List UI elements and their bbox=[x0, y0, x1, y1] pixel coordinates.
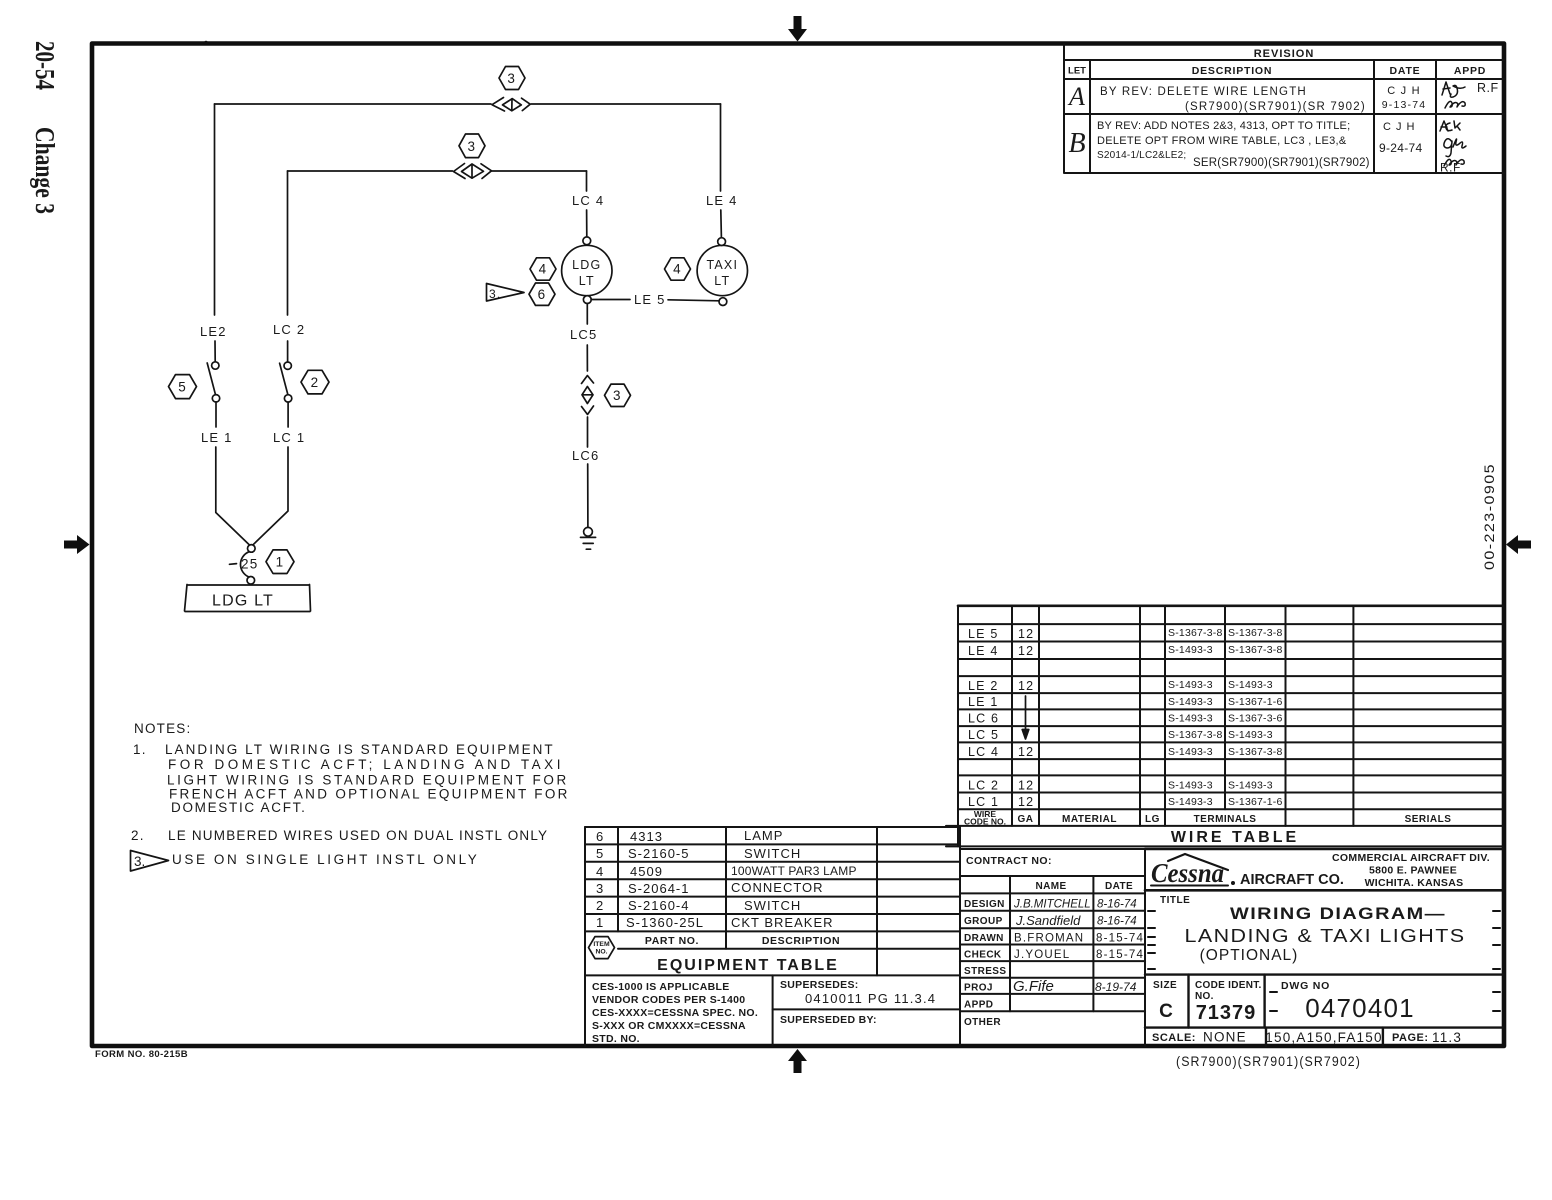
svg-text:DWG NO: DWG NO bbox=[1281, 980, 1330, 992]
svg-text:S-1493-3: S-1493-3 bbox=[1228, 679, 1273, 691]
svg-text:VENDOR CODES PER S-1400: VENDOR CODES PER S-1400 bbox=[592, 994, 745, 1006]
svg-text:1: 1 bbox=[596, 915, 604, 930]
svg-text:SUPERSEDES:: SUPERSEDES: bbox=[780, 979, 859, 991]
svg-text:9-24-74: 9-24-74 bbox=[1379, 141, 1422, 155]
wire LC4 vertical x=586.5 bbox=[586, 171, 588, 237]
svg-text:Cessna: Cessna bbox=[1151, 858, 1224, 888]
lamp LDG LT (item 4, 100 watt PAR3 lamp) bbox=[562, 237, 612, 304]
svg-text:00-223-0905: 00-223-0905 bbox=[1482, 463, 1497, 570]
svg-text:R.F: R.F bbox=[1477, 81, 1499, 95]
svg-text:S-2064-1: S-2064-1 bbox=[628, 881, 689, 896]
node LDG LT bus bar box bbox=[185, 585, 311, 612]
hexagon callout 4 (left of LDG LT) bbox=[530, 258, 556, 280]
svg-text:5: 5 bbox=[596, 846, 604, 861]
svg-text:S-1493-3: S-1493-3 bbox=[1168, 713, 1213, 725]
svg-text:LAMP: LAMP bbox=[744, 828, 783, 843]
svg-text:71379: 71379 bbox=[1196, 1002, 1257, 1024]
svg-text:LC5: LC5 bbox=[570, 327, 597, 342]
circuit breaker item1 25A (S-1360-25L) bbox=[230, 545, 256, 584]
lamp TAXI LT (item 4, 100 watt PAR3 lamp) bbox=[697, 238, 747, 306]
svg-text:1.: 1. bbox=[133, 742, 147, 757]
svg-text:OTHER: OTHER bbox=[964, 1017, 1001, 1028]
svg-text:SWITCH: SWITCH bbox=[744, 898, 801, 913]
svg-text:100WATT PAR3 LAMP: 100WATT PAR3 LAMP bbox=[731, 864, 857, 878]
svg-text:1: 1 bbox=[276, 555, 285, 570]
svg-text:LC 6: LC 6 bbox=[968, 712, 999, 726]
equipment table item rows bbox=[596, 828, 857, 930]
hexagon callout 3 (vertical connector) bbox=[605, 384, 631, 406]
svg-text:C: C bbox=[1159, 1001, 1173, 1022]
svg-text:S-XXX OR CMXXXX=CESSNA: S-XXX OR CMXXXX=CESSNA bbox=[592, 1020, 746, 1032]
svg-text:SCALE:: SCALE: bbox=[1152, 1032, 1196, 1044]
svg-text:CODE IDENT.: CODE IDENT. bbox=[1195, 980, 1262, 991]
svg-text:LE NUMBERED WIRES USED ON: LE NUMBERED WIRES USED ON DUAL INSTL ONL… bbox=[168, 828, 548, 843]
svg-text:S-1367-3-8: S-1367-3-8 bbox=[1168, 627, 1223, 639]
svg-text:S-2160-5: S-2160-5 bbox=[628, 846, 689, 861]
svg-text:3: 3 bbox=[507, 71, 516, 86]
svg-text:TAXI: TAXI bbox=[706, 258, 738, 272]
svg-text:J.Sandfield: J.Sandfield bbox=[1015, 913, 1081, 928]
svg-text:LANDING LT WIRING IS STAND: LANDING LT WIRING IS STANDARD EQUIPMENT bbox=[165, 742, 555, 757]
svg-text:LC 1: LC 1 bbox=[968, 795, 999, 809]
svg-text:S-1367-1-6: S-1367-1-6 bbox=[1228, 796, 1283, 808]
svg-text:LDG LT: LDG LT bbox=[212, 593, 274, 610]
svg-text:PROJ: PROJ bbox=[964, 983, 993, 994]
svg-text:CONTRACT NO:: CONTRACT NO: bbox=[966, 855, 1052, 867]
svg-text:25: 25 bbox=[241, 557, 258, 572]
registration arrow right (pointing left) bbox=[1506, 535, 1531, 554]
svg-text:4: 4 bbox=[596, 864, 604, 879]
svg-text:SIZE: SIZE bbox=[1153, 980, 1177, 991]
svg-text:LIGHT WIRING IS STANDARD E: LIGHT WIRING IS STANDARD EQUIPMENT FOR bbox=[167, 773, 569, 788]
svg-text:8-19-74: 8-19-74 bbox=[1095, 980, 1137, 994]
svg-text:6: 6 bbox=[538, 287, 547, 302]
svg-text:S-1493-3: S-1493-3 bbox=[1168, 679, 1213, 691]
svg-text:CODE NO.: CODE NO. bbox=[964, 817, 1006, 827]
svg-text:WIRE TABLE: WIRE TABLE bbox=[1171, 829, 1299, 846]
wire LC2 vertical x=287.5 bbox=[287, 171, 289, 362]
vendor codes box bbox=[585, 975, 960, 1046]
svg-text:3.: 3. bbox=[489, 287, 501, 301]
size / code ident / dwg no row bbox=[1145, 975, 1503, 1028]
connector item3 on LE wire (quick disconnect) bbox=[492, 98, 530, 112]
svg-text:S-1493-3: S-1493-3 bbox=[1168, 644, 1213, 656]
svg-text:NAME: NAME bbox=[1035, 881, 1066, 892]
wire table entries bbox=[968, 627, 1034, 809]
svg-text:12: 12 bbox=[1018, 627, 1034, 641]
svg-text:GROUP: GROUP bbox=[964, 916, 1003, 927]
svg-text:S-1360-25L: S-1360-25L bbox=[626, 915, 704, 930]
registration arrow top (pointing down) bbox=[788, 16, 807, 42]
svg-text:NOTES:: NOTES: bbox=[134, 721, 191, 736]
svg-text:NO.: NO. bbox=[1195, 991, 1214, 1002]
svg-text:CHECK: CHECK bbox=[964, 950, 1002, 961]
svg-text:LE 5: LE 5 bbox=[634, 292, 666, 307]
svg-text:Change 3: Change 3 bbox=[30, 127, 60, 214]
svg-text:12: 12 bbox=[1018, 679, 1034, 693]
svg-text:LE 2: LE 2 bbox=[968, 679, 999, 693]
svg-text:REVISION: REVISION bbox=[1254, 48, 1315, 60]
svg-text:5800 E. PAWNEE: 5800 E. PAWNEE bbox=[1369, 865, 1457, 877]
svg-text:(SR7900)(SR7901)(SR 7902): (SR7900)(SR7901)(SR 7902) bbox=[1185, 101, 1366, 113]
wire LC3/LC2 second horizontal run y=171 bbox=[288, 170, 587, 172]
svg-text:LG: LG bbox=[1145, 814, 1160, 825]
svg-text:LE2: LE2 bbox=[200, 324, 227, 339]
svg-text:APPD: APPD bbox=[1454, 65, 1486, 77]
svg-text:3: 3 bbox=[467, 139, 476, 154]
scale row bbox=[1266, 1028, 1383, 1046]
wire table grid bbox=[946, 606, 1503, 847]
svg-text:BY REV: ADD NOTES 2&3, 4313, O: BY REV: ADD NOTES 2&3, 4313, OPT TO TITL… bbox=[1097, 120, 1350, 132]
approvals entries bbox=[1013, 899, 1137, 929]
wire table column headers bbox=[964, 809, 1006, 827]
svg-text:2: 2 bbox=[596, 898, 604, 913]
connector item3 on LC wire (quick disconnect) bbox=[454, 164, 492, 179]
svg-text:12: 12 bbox=[1018, 644, 1034, 658]
svg-text:STRESS: STRESS bbox=[964, 966, 1006, 977]
svg-text:S-1493-3: S-1493-3 bbox=[1228, 780, 1273, 792]
note 3 flag triangle pointing to hexagon 6 bbox=[487, 284, 525, 302]
revision table bbox=[1064, 44, 1504, 173]
drawing sheet outer border frame bbox=[92, 44, 1504, 1047]
svg-text:9-13-74: 9-13-74 bbox=[1382, 99, 1427, 111]
svg-text:USE ON SINGLE LIGHT INSTL: USE ON SINGLE LIGHT INSTL ONLY bbox=[172, 852, 479, 867]
wire LE4 vertical x=720.5 bbox=[720, 104, 723, 238]
svg-text:B.FROMAN: B.FROMAN bbox=[1014, 933, 1084, 945]
svg-text:NO.: NO. bbox=[595, 949, 607, 956]
svg-text:0470401: 0470401 bbox=[1305, 993, 1415, 1023]
svg-text:LE 4: LE 4 bbox=[706, 193, 738, 208]
svg-text:EQUIPMENT TABLE: EQUIPMENT TABLE bbox=[657, 957, 839, 974]
svg-text:C J H: C J H bbox=[1387, 85, 1421, 97]
wire LC5 vertical below LDG LT bbox=[586, 304, 588, 372]
switch item2 (LC circuit, S-2160-4) bbox=[280, 362, 292, 402]
svg-text:CKT BREAKER: CKT BREAKER bbox=[731, 915, 834, 930]
svg-text:8-15-74: 8-15-74 bbox=[1096, 933, 1144, 945]
svg-text:3: 3 bbox=[613, 388, 622, 403]
svg-text:S-1493-3: S-1493-3 bbox=[1168, 746, 1213, 758]
svg-text:S-1367-3-8: S-1367-3-8 bbox=[1228, 644, 1283, 656]
svg-text:APPD: APPD bbox=[964, 1000, 993, 1011]
svg-text:2.: 2. bbox=[131, 828, 145, 843]
svg-text:DRAWN: DRAWN bbox=[964, 933, 1004, 944]
svg-text:S-1367-1-6: S-1367-1-6 bbox=[1228, 696, 1283, 708]
svg-text:SER(SR7900)(SR7901)(SR7902): SER(SR7900)(SR7901)(SR7902) bbox=[1193, 157, 1370, 169]
hexagon callout 5 bbox=[169, 375, 197, 399]
notes text block bbox=[131, 721, 570, 867]
svg-text:DELETE OPT FROM WIRE TABLE,: DELETE OPT FROM WIRE TABLE, LC3 , LE3,& bbox=[1097, 135, 1347, 147]
svg-text:S-1493-3: S-1493-3 bbox=[1228, 729, 1273, 741]
hexagon callout 3 (second connector) bbox=[459, 134, 485, 158]
svg-text:LE 4: LE 4 bbox=[968, 644, 999, 658]
svg-text:R.F: R.F bbox=[1440, 161, 1461, 175]
svg-text:2: 2 bbox=[311, 375, 320, 390]
svg-text:J.YOUEL: J.YOUEL bbox=[1014, 949, 1070, 961]
svg-text:DESIGN: DESIGN bbox=[964, 899, 1005, 910]
wire LE5 horizontal y=299.5 bbox=[591, 300, 719, 301]
hexagon callout 3 (top connector) bbox=[499, 67, 525, 90]
svg-text:12: 12 bbox=[1018, 795, 1034, 809]
title block: contract and approvals table bbox=[960, 849, 1145, 1046]
svg-text:6: 6 bbox=[596, 829, 604, 844]
svg-text:TERMINALS: TERMINALS bbox=[1194, 814, 1257, 825]
appd B signature scribble bbox=[1440, 121, 1466, 166]
svg-text:C J H: C J H bbox=[1383, 121, 1416, 133]
wire LC1 vertical bbox=[253, 402, 288, 545]
hexagon callout 6 (left of LDG LT) bbox=[529, 283, 555, 305]
svg-text:LE 1: LE 1 bbox=[201, 430, 233, 445]
svg-text:S-1367-3-8: S-1367-3-8 bbox=[1168, 729, 1223, 741]
svg-text:DESCRIPTION: DESCRIPTION bbox=[762, 935, 840, 947]
wire LE2 vertical x=214.5 bbox=[214, 104, 217, 362]
svg-text:LE 1: LE 1 bbox=[968, 695, 999, 709]
svg-text:AIRCRAFT CO.: AIRCRAFT CO. bbox=[1240, 872, 1344, 888]
svg-text:5: 5 bbox=[178, 380, 187, 395]
svg-text:FORM NO. 80-215B: FORM NO. 80-215B bbox=[95, 1049, 188, 1060]
svg-text:8-16-74: 8-16-74 bbox=[1097, 916, 1137, 928]
svg-text:SERIALS: SERIALS bbox=[1405, 814, 1452, 825]
svg-text:SWITCH: SWITCH bbox=[744, 846, 801, 861]
registration tick marks title box bbox=[1148, 911, 1500, 969]
gauge continuation arrow in GA column bbox=[1022, 696, 1029, 739]
svg-text:G.Fife: G.Fife bbox=[1013, 978, 1054, 995]
svg-text:S-1493-3: S-1493-3 bbox=[1168, 696, 1213, 708]
svg-text:LC 2: LC 2 bbox=[968, 779, 999, 793]
svg-text:(SR7900)(SR7901)(SR7902): (SR7900)(SR7901)(SR7902) bbox=[1176, 1054, 1361, 1069]
note 3 flag triangle bbox=[131, 851, 169, 872]
switch item5 (LE circuit, S-2160-5) bbox=[207, 362, 220, 402]
wire LE3/LE2 top horizontal run y=104 bbox=[215, 103, 721, 105]
svg-text:LC 2: LC 2 bbox=[273, 322, 305, 337]
svg-text:STD. NO.: STD. NO. bbox=[592, 1033, 640, 1045]
svg-text:150,A150,FA150: 150,A150,FA150 bbox=[1265, 1030, 1382, 1045]
svg-text:J.B.MITCHELL: J.B.MITCHELL bbox=[1013, 899, 1091, 911]
Cessna logo bbox=[1151, 854, 1235, 888]
svg-text:FOR DOMESTIC ACFT; LANDING: FOR DOMESTIC ACFT; LANDING AND TAXI bbox=[168, 757, 564, 772]
svg-text:12: 12 bbox=[1018, 745, 1034, 759]
wire LE1 vertical bbox=[216, 402, 250, 545]
svg-text:12: 12 bbox=[1018, 779, 1034, 793]
svg-text:LT: LT bbox=[714, 274, 730, 288]
svg-text:CES-XXXX=CESSNA SPEC. NO.: CES-XXXX=CESSNA SPEC. NO. bbox=[592, 1007, 758, 1019]
svg-text:(OPTIONAL): (OPTIONAL) bbox=[1200, 947, 1299, 964]
hexagon callout 2 bbox=[301, 370, 329, 394]
hexagon callout 4 (left of TAXI LT) bbox=[665, 258, 691, 280]
svg-text:COMMERCIAL AIRCRAFT DIV.: COMMERCIAL AIRCRAFT DIV. bbox=[1332, 852, 1490, 864]
svg-text:11.3: 11.3 bbox=[1432, 1030, 1462, 1045]
svg-text:WIRING DIAGRAM—: WIRING DIAGRAM— bbox=[1230, 905, 1446, 923]
svg-text:3.: 3. bbox=[134, 854, 145, 869]
svg-text:0410011 PG 11.3.4: 0410011 PG 11.3.4 bbox=[805, 991, 936, 1006]
svg-text:DOMESTIC ACFT.: DOMESTIC ACFT. bbox=[171, 800, 307, 815]
svg-text:3: 3 bbox=[596, 881, 604, 896]
svg-text:PAGE:: PAGE: bbox=[1392, 1032, 1429, 1044]
svg-text:S-1493-3: S-1493-3 bbox=[1168, 796, 1213, 808]
svg-text:4313: 4313 bbox=[630, 829, 663, 844]
svg-text:A: A bbox=[1067, 82, 1085, 111]
svg-text:BY REV: DELETE WIRE LENGTH: BY REV: DELETE WIRE LENGTH bbox=[1100, 86, 1307, 98]
svg-text:4509: 4509 bbox=[630, 864, 663, 879]
svg-text:S-1493-3: S-1493-3 bbox=[1168, 780, 1213, 792]
svg-text:ITEM: ITEM bbox=[593, 941, 610, 948]
Cessna company block bbox=[1145, 849, 1503, 890]
svg-text:SUPERSEDED BY:: SUPERSEDED BY: bbox=[780, 1014, 877, 1026]
wire LC6 vertical to ground bbox=[587, 417, 589, 527]
svg-text:NONE: NONE bbox=[1203, 1030, 1247, 1045]
appd A signature scribble bbox=[1442, 82, 1465, 108]
hexagon callout 1 bbox=[266, 550, 294, 574]
svg-text:LET: LET bbox=[1068, 66, 1086, 77]
svg-text:B: B bbox=[1068, 128, 1085, 159]
svg-text:CONNECTOR: CONNECTOR bbox=[731, 880, 824, 895]
svg-text:LC6: LC6 bbox=[572, 448, 599, 463]
svg-text:LT: LT bbox=[579, 274, 595, 288]
svg-text:DATE: DATE bbox=[1389, 65, 1420, 77]
svg-text:S-1367-3-8: S-1367-3-8 bbox=[1228, 627, 1283, 639]
svg-text:20-54: 20-54 bbox=[30, 41, 60, 90]
svg-text:S2014-1/LC2&LE2;: S2014-1/LC2&LE2; bbox=[1097, 150, 1186, 161]
svg-text:8-15-74: 8-15-74 bbox=[1096, 949, 1144, 961]
registration arrow left (pointing right) bbox=[64, 535, 90, 554]
svg-text:LDG: LDG bbox=[572, 258, 601, 272]
svg-text:PART NO.: PART NO. bbox=[645, 935, 699, 947]
svg-text:LC 4: LC 4 bbox=[968, 745, 999, 759]
svg-text:LE 5: LE 5 bbox=[968, 627, 999, 641]
svg-text:S-1367-3-8: S-1367-3-8 bbox=[1228, 746, 1283, 758]
svg-text:DESCRIPTION: DESCRIPTION bbox=[1192, 65, 1273, 77]
svg-text:LC 4: LC 4 bbox=[572, 193, 604, 208]
svg-text:TITLE: TITLE bbox=[1160, 895, 1190, 906]
svg-text:4: 4 bbox=[539, 262, 548, 277]
registration arrow bottom (pointing up) bbox=[788, 1049, 807, 1073]
svg-text:S-2160-4: S-2160-4 bbox=[628, 898, 689, 913]
svg-text:WICHITA. KANSAS: WICHITA. KANSAS bbox=[1365, 877, 1464, 889]
equipment table bbox=[585, 827, 960, 975]
svg-text:LANDING & TAXI LIGHTS: LANDING & TAXI LIGHTS bbox=[1185, 926, 1466, 946]
item no hexagon icon bbox=[589, 937, 615, 959]
svg-text:MATERIAL: MATERIAL bbox=[1062, 814, 1117, 825]
svg-text:CES-1000 IS APPLICABLE: CES-1000 IS APPLICABLE bbox=[592, 981, 730, 993]
svg-text:LC 5: LC 5 bbox=[968, 728, 999, 742]
svg-text:DATE: DATE bbox=[1105, 881, 1133, 892]
svg-text:S-1367-3-6: S-1367-3-6 bbox=[1228, 713, 1283, 725]
connector item3 vertical (quick disconnect on LC5/LC6) bbox=[582, 376, 594, 415]
ground symbol bbox=[581, 527, 596, 549]
svg-text:LC 1: LC 1 bbox=[273, 430, 305, 445]
svg-text:GA: GA bbox=[1018, 814, 1034, 825]
svg-text:8-16-74: 8-16-74 bbox=[1097, 899, 1137, 911]
svg-text:4: 4 bbox=[673, 262, 682, 277]
dot on top border bbox=[204, 41, 208, 45]
